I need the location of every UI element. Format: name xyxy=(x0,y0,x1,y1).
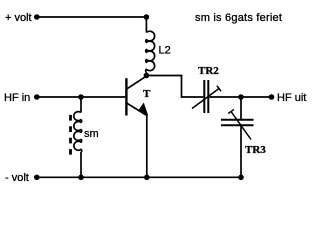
transistor T xyxy=(126,76,146,115)
node top junction xyxy=(144,14,150,20)
wire TR3 bottom lead xyxy=(240,127,242,178)
wire L2 top lead xyxy=(145,17,147,33)
svg-text:sm: sm xyxy=(84,128,99,140)
node - volt terminal xyxy=(34,175,40,181)
trimmer capacitor TR3 xyxy=(221,110,254,140)
node TR3 bottom junction xyxy=(238,175,244,181)
node collector junction xyxy=(144,73,150,79)
emitter arrow of transistor T xyxy=(139,104,148,115)
svg-text:HF in: HF in xyxy=(4,92,30,104)
wire L2 bottom lead xyxy=(145,72,147,76)
node emitter bottom junction xyxy=(144,175,150,181)
wire sm bottom lead xyxy=(80,152,82,177)
wire sm top lead xyxy=(80,97,82,113)
wire TR3 top lead xyxy=(240,97,242,119)
svg-text:T: T xyxy=(143,88,151,100)
svg-text:TR3: TR3 xyxy=(245,144,266,156)
inductor L2 xyxy=(146,31,155,72)
wire top rail xyxy=(37,16,147,18)
node HF uit terminal xyxy=(269,94,275,100)
wire bottom rail xyxy=(37,176,241,178)
svg-text:HF uit: HF uit xyxy=(277,92,306,104)
svg-text:+ volt: + volt xyxy=(5,12,32,24)
wire HF in to base xyxy=(37,96,126,98)
inductor sm xyxy=(74,112,82,153)
wire TR2 to HF uit xyxy=(209,96,271,98)
node sm top junction xyxy=(78,94,84,100)
svg-text:TR2: TR2 xyxy=(198,65,219,77)
svg-text:- volt: - volt xyxy=(5,172,29,184)
node sm bottom junction xyxy=(78,175,84,181)
core of sm (dashed ferrite line) xyxy=(69,115,72,155)
wire emitter lead xyxy=(146,115,148,178)
wire collector to TR2 xyxy=(146,76,203,98)
node + volt terminal xyxy=(34,14,40,20)
node TR3 top junction xyxy=(238,94,244,100)
trimmer capacitor TR2 xyxy=(192,80,221,113)
node HF in terminal xyxy=(34,94,40,100)
svg-text:L2: L2 xyxy=(159,45,171,57)
svg-text:sm is 6gats feriet: sm is 6gats feriet xyxy=(195,12,282,24)
